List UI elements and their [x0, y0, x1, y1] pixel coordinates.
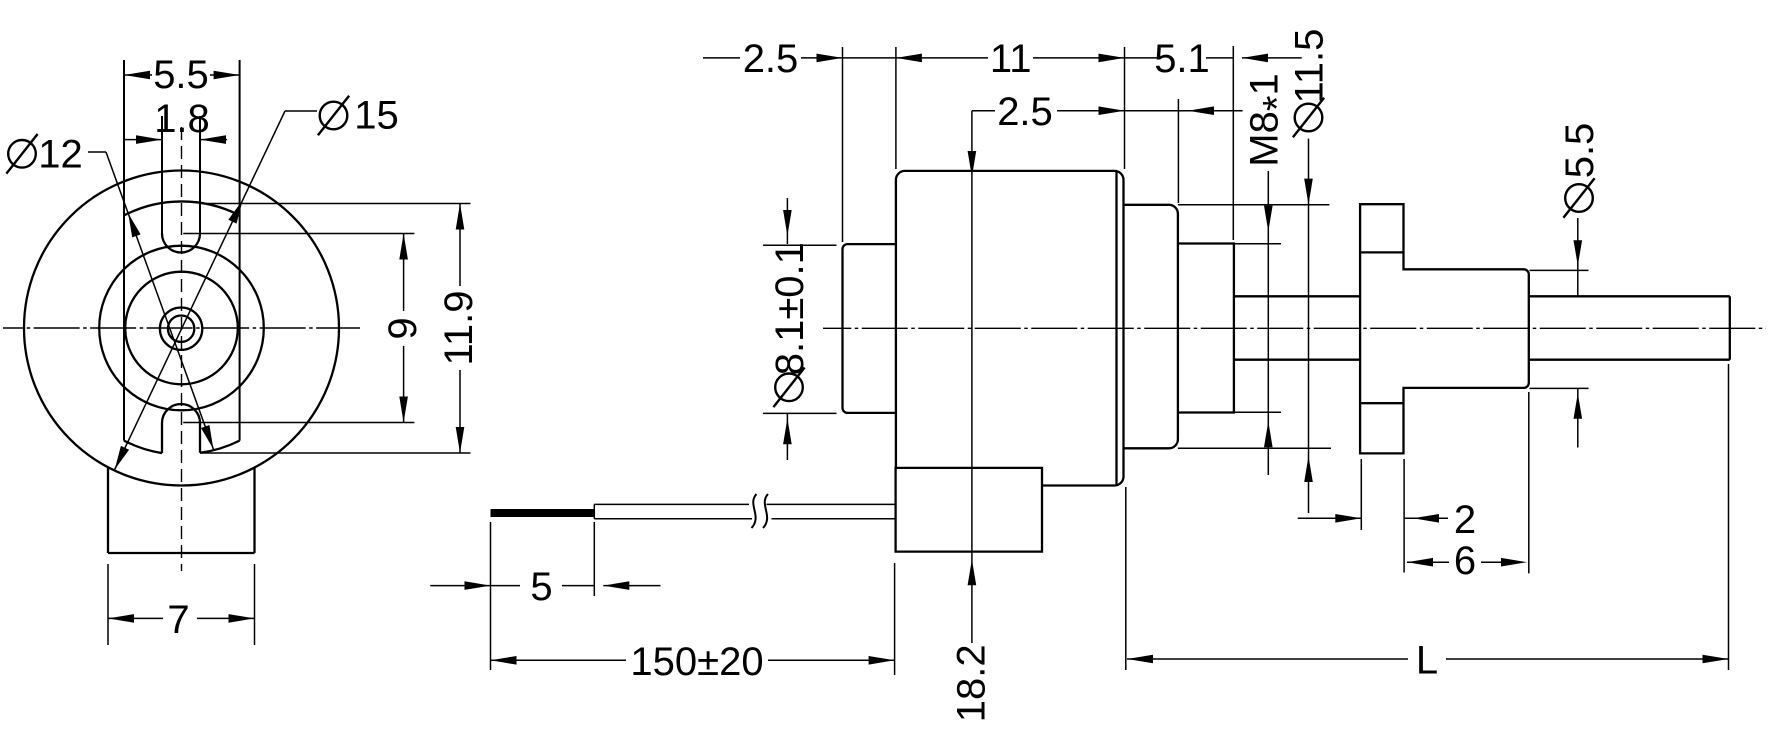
- svg-text:2: 2: [1454, 498, 1476, 542]
- svg-text:2.5: 2.5: [997, 90, 1053, 134]
- svg-text:6: 6: [1454, 539, 1476, 583]
- svg-text:1.8: 1.8: [154, 97, 210, 141]
- svg-text:15: 15: [354, 94, 399, 138]
- svg-text:2.5: 2.5: [743, 37, 799, 81]
- svg-text:11.5: 11.5: [1288, 29, 1332, 104]
- svg-text:150±20: 150±20: [630, 640, 763, 684]
- svg-text:5.5: 5.5: [153, 53, 209, 97]
- svg-text:5.5: 5.5: [1558, 123, 1602, 179]
- svg-text:L: L: [1416, 639, 1438, 683]
- svg-text:11: 11: [990, 37, 1032, 81]
- svg-text:8.1±0.1: 8.1±0.1: [768, 242, 812, 375]
- svg-text:9: 9: [381, 317, 425, 339]
- svg-text:11.9: 11.9: [437, 291, 481, 366]
- svg-text:12: 12: [38, 133, 83, 177]
- svg-text:5: 5: [530, 565, 552, 609]
- svg-text:7: 7: [167, 598, 189, 642]
- svg-text:5.1: 5.1: [1154, 37, 1210, 81]
- svg-text:18.2: 18.2: [950, 644, 994, 722]
